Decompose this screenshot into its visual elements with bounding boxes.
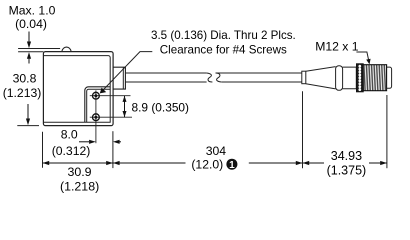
connector barrel (343, 67, 357, 89)
svg-text:8.0: 8.0 (61, 128, 78, 142)
svg-text:Clearance for #4 Screws: Clearance for #4 Screws (160, 44, 287, 57)
cable end ferrule (302, 71, 306, 84)
svg-text:(12.0): (12.0) (191, 157, 223, 171)
screw hole upper crosshair horizontal (90, 95, 131, 97)
svg-text:(0.312): (0.312) (52, 144, 91, 158)
screw hole lower circle (93, 114, 100, 121)
svg-text:30.9: 30.9 (67, 165, 91, 179)
body right extension line (112, 131, 114, 168)
strain relief cone bottom (306, 84, 336, 89)
knurled ring (356, 64, 363, 92)
Max 1.0 lower reference line (18, 51, 43, 53)
connector tip (387, 67, 392, 88)
sensor body outer outline (43, 52, 113, 126)
callout leader line to screw hole (103, 52, 153, 91)
34.93 dimension line left part (303, 162, 325, 164)
cable left segment bottom line (125, 81, 206, 83)
svg-text:(1.218): (1.218) (60, 180, 99, 194)
svg-text:34.93: 34.93 (331, 149, 362, 163)
svg-text:(1.213): (1.213) (3, 86, 42, 100)
svg-text:30.8: 30.8 (13, 72, 37, 86)
cable left segment top line (125, 72, 206, 74)
svg-text:8.9 (0.350): 8.9 (0.350) (132, 101, 190, 115)
note 1 ball (226, 159, 237, 170)
svg-text:Max. 1.0: Max. 1.0 (9, 3, 56, 17)
cable boot at body right (113, 67, 125, 89)
strain relief cone top (306, 67, 336, 72)
connector left extension line (302, 91, 304, 168)
mounting plate inner (87, 89, 111, 122)
M12 leader (356, 52, 368, 60)
threaded barrel M12 (363, 65, 386, 91)
304 dimension line left part (113, 162, 186, 164)
up arrow to lower ref line (30.8 top arrow) (28, 56, 30, 64)
body top bump (62, 47, 71, 51)
svg-text:3.5 (0.136) Dia. Thru 2 Plcs.: 3.5 (0.136) Dia. Thru 2 Plcs. (151, 29, 296, 42)
sensor body inner outline (43, 56, 110, 123)
down arrow to upper ref line (28, 32, 30, 45)
thread end extension line (386, 95, 388, 168)
mounting plate outer (85, 87, 110, 123)
cable right segment top line (216, 72, 302, 74)
304 dimension line right part (249, 162, 303, 164)
svg-text:1: 1 (229, 160, 235, 171)
30.8 bottom reference line (17, 125, 39, 127)
screw hole lower crosshair horizontal (90, 116, 132, 118)
8.0 right arrow (tip at body right extension) (120, 141, 122, 143)
30.8 bottom down arrow (27, 104, 29, 121)
collar ring (336, 66, 343, 91)
screw hole upper circle (93, 92, 100, 99)
cable break right squiggle (216, 73, 222, 82)
svg-text:M12 x 1: M12 x 1 (315, 40, 359, 54)
cable break left squiggle (207, 73, 213, 82)
svg-text:(0.04): (0.04) (15, 17, 47, 31)
cable right segment bottom line (221, 81, 301, 83)
8.0 left arrow (tip at hole centreline) (79, 141, 89, 143)
34.93 dimension line right part (369, 162, 387, 164)
Max 1.0 upper reference line (18, 48, 60, 50)
8.9 dimension arrows (124, 96, 126, 118)
screw hole centre vertical line (95, 90, 97, 143)
30.9 dimension line (43, 162, 113, 164)
svg-text:(1.375): (1.375) (327, 164, 367, 178)
body left extension line (42, 132, 44, 168)
svg-text:304: 304 (206, 144, 227, 158)
